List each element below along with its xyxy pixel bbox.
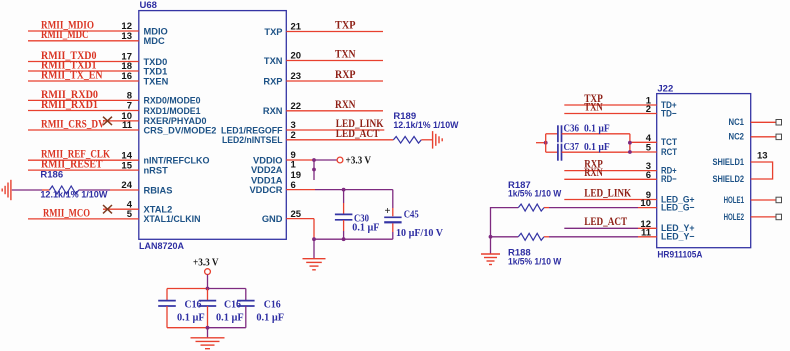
svg-text:U68: U68 (140, 0, 157, 11)
U68 pin 18 TXD1 (28, 59, 167, 76)
resistor R186 12.1k/1% 1/10W (40, 170, 107, 200)
wire SHIELD1-SHIELD2 link, pin 13 (751, 150, 773, 179)
svg-text:LED_G−: LED_G− (661, 203, 695, 213)
svg-text:RMII_MCO: RMII_MCO (43, 207, 90, 219)
svg-text:RXD0/MODE0: RXD0/MODE0 (144, 96, 201, 106)
svg-text:0.1 µF: 0.1 µF (256, 312, 284, 323)
wire cap bank bottom rail (167, 326, 246, 330)
svg-text:1k/5% 1/10 W: 1k/5% 1/10 W (508, 188, 561, 199)
svg-text:+3.3 V: +3.3 V (193, 258, 219, 269)
svg-text:VDD2A: VDD2A (251, 165, 283, 175)
U68 pin 5 XTAL1/CLKIN (28, 207, 201, 224)
svg-text:TXD1: TXD1 (144, 66, 168, 76)
svg-text:MDC: MDC (144, 36, 165, 46)
svg-text:13: 13 (757, 150, 768, 161)
U68 pin 4 XTAL2 (103, 199, 172, 214)
svg-text:RMII_TX_EN: RMII_TX_EN (41, 69, 103, 81)
svg-text:0.1 µF: 0.1 µF (216, 312, 244, 323)
ground (cap bank) (191, 338, 225, 349)
svg-text:XTAL1/CLKIN: XTAL1/CLKIN (144, 214, 201, 224)
wire R187 left lead (491, 208, 519, 237)
svg-text:R186: R186 (40, 170, 63, 181)
wire cap bank top rail (167, 287, 246, 291)
U68 pin 25 GND (262, 209, 302, 224)
J22 pin 3 RD+ (564, 158, 677, 175)
svg-text:LED2/nINTSEL: LED2/nINTSEL (222, 135, 283, 145)
wire caps left bracket (545, 134, 547, 152)
wire R188 left lead (489, 235, 519, 239)
resistor R189 12.1k/1% 1/10W (393, 111, 458, 143)
U68 pin 23 RXP (263, 69, 383, 86)
svg-text:TXEN: TXEN (144, 76, 169, 86)
capacitor C16 (b) 0.1 uF (199, 289, 244, 328)
U68 pin 14 nINT/REFCLKO (28, 149, 210, 166)
wire VDDIO to +3.3V (286, 158, 337, 162)
wire VDD rail vertical (312, 160, 316, 180)
svg-text:LED_ACT: LED_ACT (584, 216, 627, 228)
node +3.3 V (bottom bank) (193, 258, 219, 275)
U68 pin 3 LED1/REGOFF (221, 118, 384, 135)
J22 pin SHIELD1 (713, 157, 745, 167)
svg-text:VDDIO: VDDIO (253, 155, 282, 165)
wire caps right bracket (628, 134, 632, 154)
U68 pin 22 RXN (263, 99, 383, 116)
resistor R187 1k/5% 1/10 W (508, 180, 561, 211)
svg-text:RMII_MDC: RMII_MDC (41, 29, 89, 41)
svg-text:0.1 µF: 0.1 µF (177, 312, 205, 323)
wire ground to R186 (12, 189, 50, 191)
svg-text:LED_Y−: LED_Y− (661, 232, 695, 242)
U68 pin 19 VDD1A (251, 170, 301, 185)
svg-text:LAN8720A: LAN8720A (139, 241, 184, 252)
capacitor C16 (a) 0.1 uF (158, 289, 205, 328)
svg-text:NC1: NC1 (729, 117, 745, 127)
svg-text:LED1/REGOFF: LED1/REGOFF (221, 125, 283, 135)
capacitor C36 0.1 uF (546, 123, 630, 143)
node +3.3 V (top) (337, 156, 371, 167)
U68 pin 2 LED2/nINTSEL (222, 128, 393, 145)
svg-text:TXN: TXN (335, 49, 356, 61)
svg-text:TXN: TXN (584, 101, 603, 113)
wire stem to ground (bank) (207, 328, 209, 338)
svg-text:12.1k/1% 1/10W: 12.1k/1% 1/10W (393, 119, 458, 130)
wire stem to ground (R187/R188) (490, 237, 492, 254)
J22 pin 4 TCT (630, 133, 677, 147)
J22 pin SHIELD2 (713, 174, 745, 184)
svg-text:RMII_CRS_DV: RMII_CRS_DV (41, 118, 105, 130)
svg-text:10 µF/10 V: 10 µF/10 V (396, 228, 443, 239)
svg-text:0.1 µF: 0.1 µF (584, 124, 610, 135)
U68 pin 12 MDIO (28, 19, 168, 36)
svg-text:RD−: RD− (661, 174, 677, 184)
svg-text:C37: C37 (564, 141, 580, 153)
U68 pin 7 RXD1/MODE1 (28, 99, 201, 116)
J22 pin HOLE1 (724, 195, 782, 205)
svg-text:0.1 µF: 0.1 µF (352, 223, 379, 234)
svg-text:VDDCR: VDDCR (249, 185, 282, 195)
U68 pin 10 RXER/PHYAD0 (103, 111, 207, 126)
svg-text:HOLE2: HOLE2 (724, 212, 744, 222)
wire +3.3V to cap bank (207, 275, 209, 289)
svg-text:nINT/REFCLKO: nINT/REFCLKO (144, 156, 210, 166)
svg-text:VDD1A: VDD1A (251, 175, 283, 185)
svg-text:C45: C45 (404, 209, 419, 221)
wire GND pin 25 (286, 219, 314, 240)
wire stub TCT/RCT tap (536, 141, 548, 145)
svg-text:GND: GND (262, 214, 283, 224)
svg-text:RXD1/MODE1: RXD1/MODE1 (144, 106, 201, 116)
svg-text:0.1 µF: 0.1 µF (584, 142, 610, 153)
J22 pin NC2 (729, 132, 782, 142)
svg-text:TD−: TD− (661, 108, 677, 118)
svg-text:LED_ACT: LED_ACT (336, 128, 380, 140)
U68 pin 21 TXP (264, 20, 383, 37)
U68 pin 24 RBIAS (110, 180, 172, 195)
ground (below R188) (481, 254, 500, 265)
svg-text:1: 1 (291, 160, 297, 171)
U68 pin 16 TXEN (28, 69, 169, 86)
svg-text:NC2: NC2 (729, 132, 745, 142)
svg-text:RXN: RXN (263, 106, 283, 116)
svg-text:TXD0: TXD0 (144, 57, 168, 67)
IC U68 LAN8720A body (139, 0, 286, 252)
U68 pin 20 TXN (264, 49, 383, 66)
svg-text:MDIO: MDIO (144, 26, 168, 36)
svg-text:RXN: RXN (584, 167, 603, 179)
wire stem to ground (313, 239, 315, 258)
ground (right of R189) (433, 131, 443, 149)
wire cap bottom rail (312, 237, 393, 241)
svg-text:SHIELD2: SHIELD2 (713, 174, 745, 184)
capacitor C37 0.1 uF (546, 141, 630, 161)
svg-text:XTAL2: XTAL2 (144, 205, 173, 215)
J22 pin 11 LED_Y− (544, 227, 695, 241)
svg-text:C16: C16 (264, 298, 281, 310)
J22 pin NC1 (729, 117, 782, 127)
J22 pin HOLE2 (724, 212, 782, 222)
J22 pin 10 LED_G− (544, 198, 695, 212)
wire R189 to ground (421, 139, 432, 141)
ground (left of R186) (2, 180, 11, 200)
svg-text:LED_LINK: LED_LINK (584, 187, 631, 199)
svg-text:TCT: TCT (661, 137, 677, 147)
wire VDDCR to caps (286, 188, 393, 192)
U68 pin 13 MDC (28, 29, 165, 46)
capacitor C16 (c) 0.1 uF (237, 289, 284, 328)
svg-text:RXP: RXP (335, 69, 356, 81)
J22 pin 9 LED_G+ (564, 187, 695, 204)
connector J22 HR911105A body (657, 84, 751, 261)
svg-text:TXP: TXP (264, 27, 282, 37)
J22 pin 2 TD− (564, 101, 677, 118)
ground (below C30/C45) (303, 259, 326, 270)
svg-text:TXN: TXN (264, 56, 283, 66)
U68 pin 1 VDD2A (251, 160, 297, 175)
U68 pin 9 VDDIO (253, 150, 296, 165)
svg-text:C36: C36 (564, 123, 580, 135)
capacitor C45 10 uF/10 V (384, 190, 443, 240)
svg-text:SHIELD1: SHIELD1 (713, 157, 745, 167)
svg-text:RMII_RXD1: RMII_RXD1 (41, 99, 98, 111)
capacitor C30 0.1 uF (335, 190, 380, 240)
resistor R188 1k/5% 1/10 W (508, 233, 561, 266)
U68 pin 15 nRST (28, 159, 168, 176)
svg-text:+3.3 V: +3.3 V (346, 156, 372, 167)
U68 pin 17 TXD0 (28, 50, 167, 67)
svg-text:nRST: nRST (144, 165, 169, 175)
J22 pin 1 TD+ (564, 93, 677, 110)
svg-text:RXP: RXP (263, 76, 282, 86)
J22 pin 12 LED_Y+ (564, 216, 695, 233)
svg-text:TXP: TXP (335, 20, 356, 32)
svg-text:1k/5% 1/10 W: 1k/5% 1/10 W (508, 255, 561, 266)
svg-text:RCT: RCT (661, 147, 677, 157)
svg-text:HOLE1: HOLE1 (724, 195, 744, 205)
wire R186 to pin 24 (79, 189, 110, 191)
svg-text:+: + (385, 206, 391, 217)
J22 pin 5 RCT (630, 143, 677, 157)
svg-text:HR911105A: HR911105A (657, 250, 702, 261)
J22 pin 6 RD− (564, 167, 677, 184)
U68 pin 8 RXD0/MODE0 (28, 89, 201, 106)
U68 pin 6 VDDCR (249, 180, 295, 195)
svg-text:CRS_DV/MODE2: CRS_DV/MODE2 (144, 125, 217, 135)
svg-text:RBIAS: RBIAS (144, 185, 173, 195)
U68 pin 11 CRS_DV/MODE2 (28, 118, 216, 135)
svg-text:J22: J22 (657, 84, 673, 95)
svg-text:RXN: RXN (335, 99, 356, 111)
